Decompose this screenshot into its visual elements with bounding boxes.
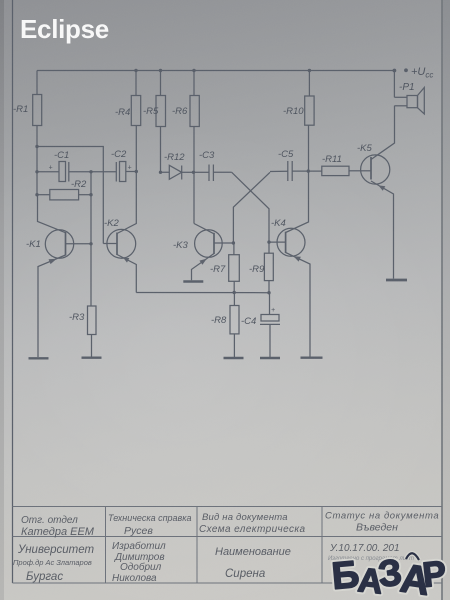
wire top supply rail — [37, 70, 394, 72]
wire C4 bottom — [269, 324, 271, 357]
wire emitter rail — [136, 292, 269, 294]
svg-text:-R2: -R2 — [71, 179, 87, 190]
wire C5 left — [270, 170, 288, 172]
svg-text:Отг. отдел: Отг. отдел — [21, 515, 78, 526]
svg-text:Техническа справка: Техническа справка — [108, 513, 192, 523]
ground C4 — [260, 357, 280, 359]
wire R3 bottom — [91, 335, 93, 358]
svg-text:-R5: -R5 — [143, 106, 159, 117]
resistor R8 — [230, 306, 239, 334]
wire C5 right — [292, 170, 322, 172]
ground K4 — [301, 357, 323, 359]
wire R1 bottom — [36, 126, 38, 147]
table col divider 1 — [105, 507, 107, 584]
wire R1 top — [36, 71, 38, 95]
wire R6 bottom — [193, 127, 195, 173]
table row divider — [13, 536, 443, 538]
title block — [13, 507, 443, 584]
wire R5 top — [160, 71, 162, 96]
transistor K3 — [192, 224, 234, 281]
resistor R2 — [50, 190, 79, 200]
wire K3 collector column — [193, 172, 195, 223]
svg-text:+: + — [128, 165, 132, 172]
svg-text:Сирена: Сирена — [225, 568, 265, 580]
svg-text:-C2: -C2 — [111, 149, 127, 160]
wire R9 top — [268, 242, 270, 253]
resistor R7 — [229, 255, 240, 282]
wire C2 left — [91, 171, 116, 173]
junction R2 left — [35, 193, 38, 196]
svg-text:-K1: -K1 — [26, 239, 41, 250]
svg-text:-R12: -R12 — [164, 152, 185, 163]
resistor R9 — [264, 253, 273, 280]
svg-text:Р: Р — [421, 554, 448, 595]
junction diode cathode R6 C3 — [192, 171, 195, 174]
wire node to K2 base branch — [37, 147, 103, 244]
junction rail R5 — [159, 69, 162, 72]
svg-text:-C3: -C3 — [199, 150, 215, 161]
svg-text:Статус на документа: Статус на документа — [325, 511, 439, 522]
ground R8 — [224, 357, 244, 359]
svg-text:Одобрил: Одобрил — [120, 561, 162, 573]
transistor K1 — [38, 195, 92, 357]
junction C1 left — [35, 170, 38, 173]
junction R5 diode anode — [159, 171, 162, 174]
table col divider 2 — [196, 507, 198, 584]
svg-text:Университет: Университет — [17, 544, 94, 556]
capacitor C2 — [115, 162, 117, 182]
wire C4 top — [269, 293, 271, 315]
transistor K4 — [269, 125, 310, 356]
paper edge shading — [0, 0, 4, 600]
wire R2 right — [79, 194, 91, 196]
junction R1 bottom node — [35, 145, 38, 148]
resistor R3 — [88, 306, 97, 335]
junction K4 base R9 — [267, 240, 270, 243]
resistor R1 — [33, 95, 42, 126]
svg-text:-R10: -R10 — [283, 106, 304, 117]
wire Ucc to speaker — [393, 71, 395, 98]
svg-text:+: + — [49, 165, 53, 172]
wire R8 bottom — [233, 334, 235, 357]
sheet frame left line — [12, 0, 14, 583]
wire R6 top — [193, 71, 195, 96]
junction rail R4 — [134, 69, 137, 72]
transistor K2 — [103, 126, 136, 293]
svg-text:Бургас: Бургас — [26, 571, 63, 583]
wire R7 bottom — [233, 281, 235, 292]
node Ucc terminal dot — [404, 68, 408, 72]
wire C2 right — [126, 171, 137, 173]
junction K3 base R7 — [232, 241, 235, 244]
resistor R5 — [156, 96, 166, 127]
wire R11 right — [349, 170, 361, 172]
svg-text:Русев: Русев — [124, 525, 153, 537]
transistor K5 — [361, 106, 395, 279]
svg-text:-R9: -R9 — [249, 264, 265, 275]
wire R5 bottom to diode — [161, 127, 170, 173]
svg-text:Въведен: Въведен — [356, 522, 398, 534]
wire R10 top — [308, 71, 310, 97]
svg-text:-K4: -K4 — [271, 218, 286, 229]
junction K1 base — [89, 242, 92, 245]
svg-text:-R4: -R4 — [115, 107, 130, 118]
svg-text:Катедра ЕЕМ: Катедра ЕЕМ — [21, 526, 95, 538]
svg-text:-C4: -C4 — [241, 316, 256, 327]
svg-text:+Ucc: +Ucc — [411, 66, 433, 80]
ground R3 — [82, 357, 102, 359]
table top line — [13, 506, 443, 508]
wire left column down — [36, 147, 38, 195]
svg-text:-P1: -P1 — [399, 82, 415, 93]
resistor R10 — [305, 96, 314, 125]
junction R9 C4 emitter rail — [267, 291, 270, 294]
diode R12 — [169, 165, 193, 179]
wire C1 left — [37, 171, 59, 173]
paper grain — [0, 0, 1, 1]
wire C3 right — [213, 171, 231, 173]
svg-text:-R7: -R7 — [210, 264, 226, 275]
wire node to C3 — [194, 171, 210, 173]
resistor R4 — [131, 96, 140, 126]
ground K1 — [29, 357, 49, 359]
svg-text:-R3: -R3 — [69, 312, 85, 323]
svg-text:-R1: -R1 — [13, 104, 28, 115]
svg-text:Схема електрическа: Схема електрическа — [199, 524, 306, 535]
junction R7 R8 emitter rail — [233, 291, 236, 294]
junction R2 right — [89, 193, 92, 196]
svg-text:-R8: -R8 — [211, 315, 227, 326]
speaker P1 — [394, 88, 424, 115]
watermark BAZAR — [330, 551, 448, 600]
svg-text:-K3: -K3 — [173, 240, 189, 251]
wire R9 bottom — [268, 281, 270, 293]
capacitor C4 — [261, 315, 279, 322]
junction C5 R11 K4 collector — [307, 169, 310, 172]
ground K3 — [183, 280, 203, 282]
wire R2 left — [37, 194, 50, 196]
resistor R6 — [190, 96, 199, 127]
ground K5 — [386, 279, 407, 282]
wire R7 top — [233, 243, 235, 255]
capacitor C3 — [208, 165, 210, 182]
svg-text:-R11: -R11 — [322, 154, 342, 165]
svg-text:-K5: -K5 — [357, 143, 373, 154]
junction rail R10 — [308, 69, 311, 72]
junction C2 right R4 bottom — [135, 170, 138, 173]
svg-text:-K2: -K2 — [104, 218, 120, 229]
wire cross coupling C3 to K4 base — [232, 172, 269, 242]
svg-text:Проф.др Ас Златаров: Проф.др Ас Златаров — [13, 558, 92, 567]
wire R8 top — [233, 293, 235, 306]
capacitor C5 — [287, 161, 289, 181]
wire cross coupling C5 to K3 base — [233, 172, 270, 243]
svg-text:Изработил: Изработил — [112, 540, 166, 552]
paper right edge line — [441, 0, 443, 600]
wire R4 top — [135, 71, 137, 96]
wire C1 right — [69, 171, 91, 173]
svg-text:-C5: -C5 — [278, 149, 294, 160]
table col divider 3 — [321, 507, 323, 584]
svg-text:Николова: Николова — [112, 573, 157, 584]
wire base column K1 — [90, 172, 92, 306]
junction C1 right — [89, 170, 92, 173]
svg-text:Вид на документа: Вид на документа — [202, 512, 288, 523]
svg-text:-C1: -C1 — [54, 150, 69, 161]
resistor R11 — [322, 166, 349, 175]
capacitor C1 — [59, 162, 66, 182]
junction rail Ucc — [393, 69, 397, 73]
svg-text:-R6: -R6 — [172, 106, 188, 117]
table bottom line — [13, 582, 443, 584]
svg-text:+: + — [271, 307, 275, 314]
svg-text:Наименование: Наименование — [215, 546, 291, 558]
junction rail R6 — [192, 69, 195, 72]
